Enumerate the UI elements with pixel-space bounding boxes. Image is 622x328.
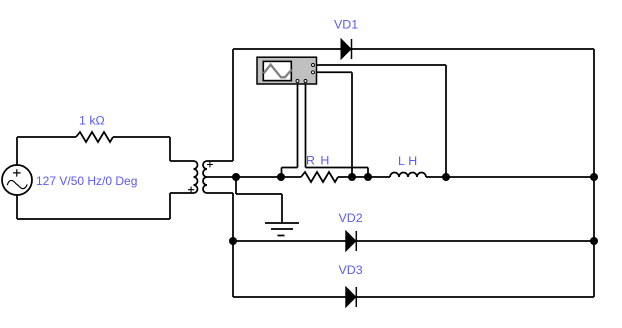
- wire top row VD1: [233, 48, 594, 50]
- svg-text:VD3: VD3: [339, 263, 363, 277]
- wire center tap down to ground: [235, 177, 237, 194]
- wire down to transformer primary top: [169, 137, 171, 161]
- wire primary top terminal: [170, 160, 194, 162]
- resistor 1 kOhm zigzag: [76, 132, 113, 142]
- wire main row left of resistor: [207, 176, 301, 178]
- wire left vertical down to bottom row: [232, 193, 234, 297]
- oscilloscope terminal bottom B: [304, 80, 307, 83]
- wire jog left: [282, 167, 298, 169]
- wire secondary bottom terminal: [207, 192, 233, 194]
- node 281: [277, 173, 285, 181]
- wire scope bottom terminal A down: [297, 84, 299, 168]
- svg-text:R: R: [306, 154, 315, 168]
- wire down x446 to main row: [445, 65, 447, 177]
- AC source plus sign: [13, 169, 21, 176]
- transformer secondary polarity plus: [207, 162, 213, 168]
- node center tap: [232, 173, 240, 181]
- wire resistor to inductor: [338, 176, 390, 178]
- inductor L H: [390, 173, 426, 178]
- wire resistor to corner: [113, 136, 170, 138]
- svg-text:L: L: [398, 154, 405, 168]
- wire scope bottom terminal B down: [305, 84, 307, 168]
- transformer T1 secondary winding: [203, 161, 207, 193]
- wire down x352 to main row: [351, 72, 353, 177]
- wire VD2 row: [233, 240, 594, 242]
- wire up to source bottom: [16, 195, 18, 219]
- oscilloscope terminal right 2: [312, 71, 315, 74]
- wire bottom of left loop: [17, 218, 170, 220]
- wire down to node at 368: [367, 168, 369, 178]
- wire secondary top terminal: [207, 160, 233, 162]
- oscilloscope terminal bottom A: [296, 80, 299, 83]
- node right main: [590, 173, 598, 181]
- wire down from primary bottom: [169, 193, 171, 219]
- wire VD3 bottom row: [233, 296, 594, 298]
- ground symbol: [265, 223, 299, 236]
- oscilloscope screen sine trace: [264, 65, 291, 78]
- wire top-left horizontal to resistor: [17, 136, 76, 138]
- wire scope terminal 2 to x352: [317, 71, 353, 73]
- node 446: [442, 173, 450, 181]
- diode VD1: [341, 39, 352, 59]
- diode VD3: [346, 287, 357, 307]
- svg-text:127 V/50 Hz/0 Deg: 127 V/50 Hz/0 Deg: [36, 174, 137, 188]
- node 368: [364, 173, 372, 181]
- svg-text:VD1: VD1: [334, 18, 358, 32]
- node right VD2: [590, 237, 598, 245]
- wire ground horizontal: [236, 193, 282, 195]
- wire right vertical: [593, 49, 595, 297]
- transformer primary polarity plus: [188, 187, 194, 193]
- wire left vertical up to top row: [232, 49, 234, 161]
- AC source sine wave: [7, 180, 27, 188]
- wire inductor to right vertical: [426, 176, 594, 178]
- node left VD2: [229, 237, 237, 245]
- wire down to node at 281: [281, 168, 283, 178]
- wire jog right: [306, 167, 369, 169]
- wire scope terminal 1 to x446: [317, 64, 447, 66]
- transformer T1 primary winding: [194, 161, 198, 193]
- wire source top to corner: [16, 137, 18, 165]
- svg-text:H: H: [320, 154, 329, 168]
- wire primary bottom terminal: [170, 192, 194, 194]
- wire ground drop: [281, 194, 283, 223]
- node 352: [348, 173, 356, 181]
- svg-text:1 kΩ: 1 kΩ: [79, 114, 105, 128]
- diode VD2: [346, 231, 357, 251]
- resistor R H zigzag: [301, 172, 338, 182]
- AC source V1: [2, 165, 32, 195]
- svg-text:H: H: [408, 154, 417, 168]
- oscilloscope XSC1 body: [257, 57, 317, 84]
- oscilloscope terminal right 1: [312, 64, 315, 67]
- svg-text:VD2: VD2: [339, 211, 363, 225]
